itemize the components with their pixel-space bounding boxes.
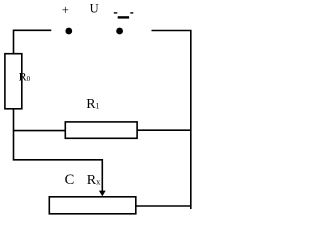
wire from + terminal to R0 top	[14, 30, 52, 54]
resistor R0	[5, 54, 22, 109]
minus terminal mark left dash	[114, 12, 118, 13]
wire R1 right terminal to right rail	[137, 129, 191, 131]
svg-text:U: U	[90, 2, 99, 16]
terminal dot -	[116, 28, 123, 35]
wire from - terminal along right rail down	[152, 31, 191, 210]
terminal dot +	[65, 28, 72, 35]
svg-text:R0: R0	[19, 70, 31, 84]
svg-text:C: C	[65, 172, 75, 188]
wire R0 bottom down, right, down to slider arrow	[14, 109, 103, 193]
slider arrowhead onto Rx	[99, 191, 106, 197]
svg-text:Rx: Rx	[87, 173, 101, 188]
wire branch to R1 left terminal	[14, 130, 66, 132]
minus terminal mark underscore	[118, 16, 129, 18]
svg-text:+: +	[62, 2, 69, 17]
svg-text:R1: R1	[86, 97, 99, 112]
rheostat Rx	[49, 197, 136, 214]
wire Rx right terminal to right rail	[136, 205, 191, 207]
resistor R1	[65, 122, 137, 138]
minus terminal mark right dash	[130, 12, 133, 13]
